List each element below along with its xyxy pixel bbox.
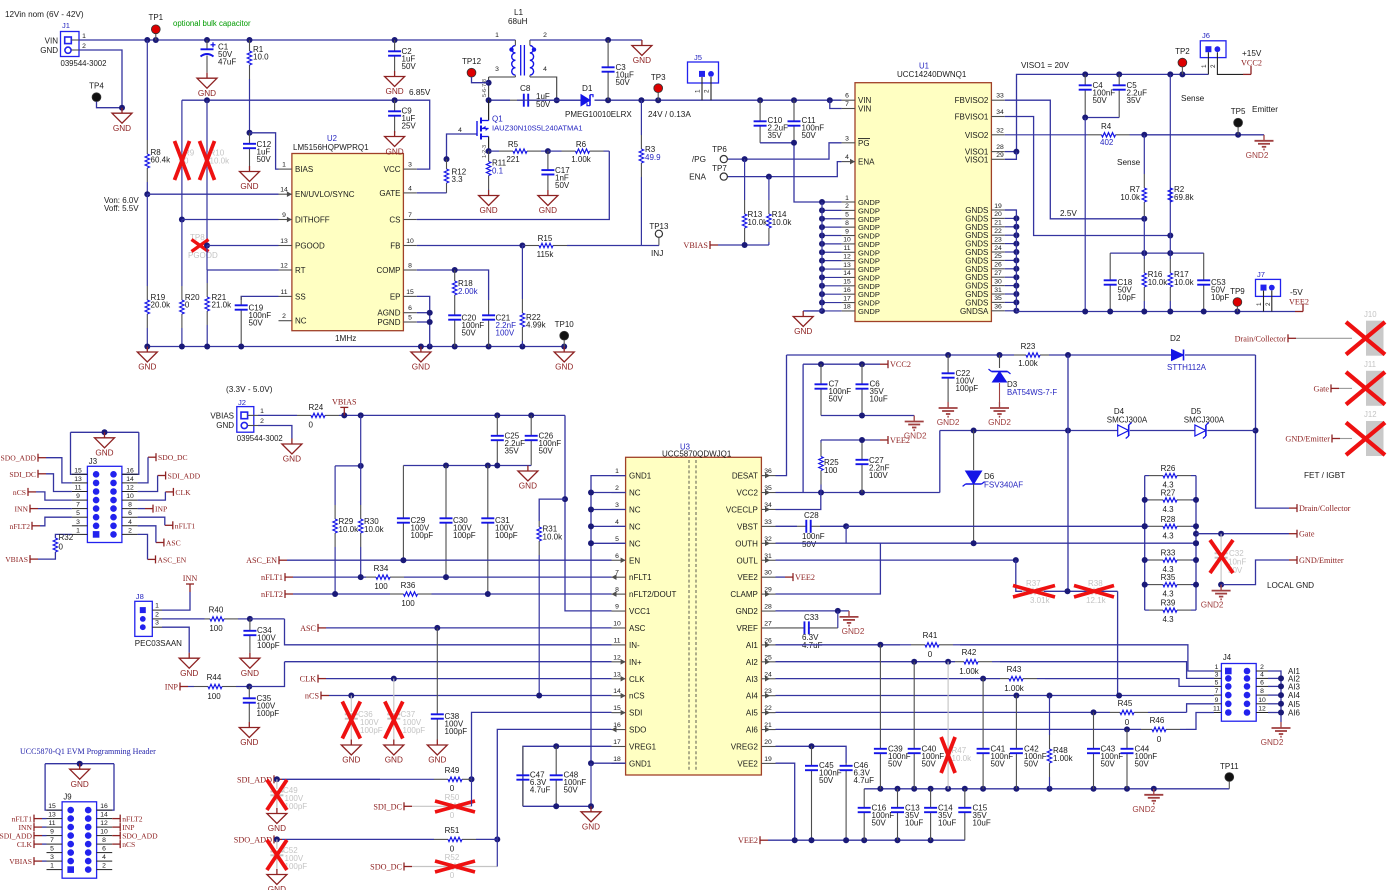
svg-text:GND: GND xyxy=(385,87,403,96)
svg-text:3.3: 3.3 xyxy=(452,175,464,184)
capacitor C3 xyxy=(607,40,609,67)
port nCS J9 xyxy=(112,843,120,845)
U2 pin 15 EP xyxy=(403,295,416,297)
U1 pin 6 VIN xyxy=(842,99,855,101)
wire U3 NC pin tie xyxy=(591,542,626,544)
svg-text:5-6-7-8: 5-6-7-8 xyxy=(482,79,488,97)
svg-text:R6: R6 xyxy=(576,140,587,149)
svg-text:Q1: Q1 xyxy=(492,115,503,124)
wire VREG2 line xyxy=(776,746,847,763)
svg-text:50V: 50V xyxy=(888,760,903,769)
svg-text:4.7uF: 4.7uF xyxy=(530,786,551,795)
svg-text:IN+: IN+ xyxy=(629,658,642,667)
port Gate J11 xyxy=(1331,387,1339,389)
svg-text:VBIAS: VBIAS xyxy=(9,857,32,866)
svg-text:GND: GND xyxy=(519,482,537,491)
ground GND at U3 xyxy=(590,806,592,812)
wire 6.85V rail xyxy=(182,100,430,169)
U2 pin 10 FB xyxy=(403,245,416,247)
capacitor C16 xyxy=(863,789,865,808)
wire OUTH line xyxy=(776,542,1197,544)
port SDO_ADD J3 xyxy=(38,457,46,459)
svg-text:NC: NC xyxy=(629,539,641,548)
svg-text:FBVISO1: FBVISO1 xyxy=(955,113,989,122)
svg-text:INJ: INJ xyxy=(651,249,663,258)
svg-text:SS: SS xyxy=(295,292,306,301)
svg-text:VIN: VIN xyxy=(45,36,59,45)
port SDI_DC xyxy=(404,805,412,807)
capacitor C18 xyxy=(1109,253,1111,280)
U1 pin 33 FBVISO2 xyxy=(991,99,1004,101)
svg-text:nFLT1: nFLT1 xyxy=(175,521,196,530)
svg-text:GND: GND xyxy=(40,46,58,55)
U3 pin 3 NC xyxy=(612,508,626,510)
U3 pin 31 OUTL xyxy=(761,559,775,561)
svg-text:7: 7 xyxy=(50,837,54,844)
svg-text:49.9: 49.9 xyxy=(645,153,661,162)
wire C18 loop rail xyxy=(1110,252,1204,254)
U3 pin 12 IN+ xyxy=(612,661,626,663)
resistor R23 xyxy=(1014,354,1026,356)
svg-text:NC: NC xyxy=(629,522,641,531)
svg-text:EP: EP xyxy=(390,292,401,301)
U3 pin 7 nFLT1 xyxy=(612,576,626,578)
wire CLK line xyxy=(326,678,612,680)
svg-text:nCS: nCS xyxy=(122,840,135,849)
svg-text:0: 0 xyxy=(450,871,455,880)
svg-text:50V: 50V xyxy=(564,786,579,795)
svg-text:BAT54WS-7-F: BAT54WS-7-F xyxy=(1007,388,1057,397)
testpoint TP1 xyxy=(155,29,157,40)
resistor R28 xyxy=(1145,525,1149,527)
port CLK J9 xyxy=(34,843,42,845)
svg-text:20: 20 xyxy=(994,211,1002,218)
svg-text:Sense: Sense xyxy=(1181,94,1205,103)
svg-text:R44: R44 xyxy=(207,673,222,682)
svg-text:GND2: GND2 xyxy=(937,418,960,427)
ground GND at TP10 xyxy=(563,347,565,353)
ground GND2 at pin28 xyxy=(848,611,850,617)
svg-text:INN: INN xyxy=(15,505,29,514)
svg-text:VISO2: VISO2 xyxy=(965,131,989,140)
ground GND at J2 xyxy=(291,439,293,445)
wire VCC1 riser xyxy=(565,415,612,611)
svg-text:68uH: 68uH xyxy=(508,17,528,26)
svg-text:10pF: 10pF xyxy=(1118,293,1136,302)
testpoint TP7 xyxy=(720,173,727,180)
svg-text:13: 13 xyxy=(613,671,621,678)
U3 pin 19 VEE2 xyxy=(761,762,775,764)
wire TP12 xyxy=(472,77,489,83)
J4 pins row 6 xyxy=(1214,712,1221,714)
svg-text:GND2: GND2 xyxy=(1246,151,1269,160)
svg-text:1.00k: 1.00k xyxy=(1053,754,1074,763)
svg-text:GND: GND xyxy=(385,148,403,157)
svg-text:VEE2: VEE2 xyxy=(738,836,758,845)
svg-text:TP9: TP9 xyxy=(1230,287,1245,296)
svg-text:10uF: 10uF xyxy=(905,819,923,828)
svg-text:nFLT1: nFLT1 xyxy=(261,573,283,582)
U3 pin 6 EN xyxy=(612,559,626,561)
resistor R21 xyxy=(206,270,208,283)
svg-text:R42: R42 xyxy=(962,648,977,657)
svg-text:UCC5870QDWJQ1: UCC5870QDWJQ1 xyxy=(662,450,732,459)
svg-text:VEE2: VEE2 xyxy=(1289,298,1309,307)
J3 pins row 7 xyxy=(72,525,88,527)
port SDI_DC J3 xyxy=(38,473,46,475)
U3 pin 5 NC xyxy=(612,542,626,544)
U3 pin 22 AI5 xyxy=(761,712,775,714)
svg-text:3: 3 xyxy=(408,162,412,169)
resistor R24 xyxy=(258,414,297,416)
svg-text:30: 30 xyxy=(994,278,1002,285)
resistor R27 xyxy=(1145,499,1149,501)
U3 pin 26 AI1 xyxy=(761,644,775,646)
svg-text:VEE2: VEE2 xyxy=(737,573,758,582)
port GND/Emitter xyxy=(1289,559,1297,561)
U2 pin 4 GATE xyxy=(403,192,416,194)
resistor R47 DNP xyxy=(947,662,949,789)
svg-text:29: 29 xyxy=(996,152,1004,159)
resistor R20 xyxy=(181,220,183,287)
svg-text:16: 16 xyxy=(100,803,108,810)
ground GND at C36 xyxy=(350,740,352,746)
svg-text:CLK: CLK xyxy=(17,840,33,849)
U3 pin 2 NC xyxy=(612,492,626,494)
svg-text:INP: INP xyxy=(155,505,167,514)
svg-text:10: 10 xyxy=(843,237,851,244)
U3 pin 35 VCC2 xyxy=(761,492,775,494)
svg-text:SDO: SDO xyxy=(629,726,646,735)
svg-text:GND: GND xyxy=(794,327,812,336)
svg-text:10: 10 xyxy=(126,493,134,500)
svg-text:GND2: GND2 xyxy=(1201,601,1224,610)
svg-text:GND2: GND2 xyxy=(988,418,1011,427)
svg-text:Emitter: Emitter xyxy=(1252,105,1278,114)
svg-text:C28: C28 xyxy=(804,511,819,520)
testpoint TP6 xyxy=(720,156,727,163)
svg-text:GND/Emitter: GND/Emitter xyxy=(1299,556,1344,565)
svg-text:CLK: CLK xyxy=(300,675,316,684)
wire DITHOFF line xyxy=(179,217,185,223)
svg-text:CLK: CLK xyxy=(175,488,191,497)
wire GND rail xyxy=(147,346,564,348)
svg-text:039544-3002: 039544-3002 xyxy=(61,59,107,68)
svg-text:VBIAS: VBIAS xyxy=(683,241,708,250)
resistor R6 xyxy=(545,148,551,154)
svg-text:R4: R4 xyxy=(1101,122,1112,131)
svg-text:VIN: VIN xyxy=(858,105,872,114)
svg-text:19: 19 xyxy=(764,756,772,763)
svg-text:3: 3 xyxy=(76,519,80,526)
port nFLT1 J9 xyxy=(34,818,42,820)
svg-text:GND: GND xyxy=(95,449,113,458)
capacitor C47 xyxy=(522,746,524,775)
wire DESAT feed xyxy=(776,355,787,476)
svg-text:16: 16 xyxy=(126,467,134,474)
svg-text:TP13: TP13 xyxy=(649,222,669,231)
wire R46 to J4 pin11 xyxy=(1186,713,1214,730)
U1 GNDP pins xyxy=(842,201,855,203)
svg-text:FB: FB xyxy=(390,242,400,251)
resistor R49 xyxy=(380,778,434,780)
svg-text:4.3: 4.3 xyxy=(1162,590,1174,599)
svg-text:J10: J10 xyxy=(1364,310,1377,319)
resistor R13 xyxy=(744,159,746,200)
svg-text:nFLT2/DOUT: nFLT2/DOUT xyxy=(629,590,677,599)
svg-text:35V: 35V xyxy=(505,447,520,456)
port SDI_ADD J9 xyxy=(34,835,42,837)
U1 GNDS pins xyxy=(991,209,1004,211)
capacitor C35 xyxy=(248,687,250,699)
svg-text:15: 15 xyxy=(843,279,851,286)
svg-text:GND: GND xyxy=(342,756,360,765)
J9 pins row 8 xyxy=(47,869,63,871)
capacitor C34 xyxy=(249,619,251,631)
svg-text:50V: 50V xyxy=(462,329,477,338)
svg-text:SMCJ300A: SMCJ300A xyxy=(1184,416,1225,425)
svg-text:10: 10 xyxy=(406,238,414,245)
J3 pins row 6 xyxy=(72,516,88,518)
svg-text:100pF: 100pF xyxy=(285,802,308,811)
testpoint TP3 xyxy=(657,88,659,93)
testpoint TP12 xyxy=(471,73,473,78)
port SDO_ADD J9 xyxy=(112,835,120,837)
wire J8 pin3 to GND xyxy=(162,627,189,653)
U1 pin 7 VIN xyxy=(842,108,855,110)
wire VIN pin7 branch xyxy=(830,100,842,108)
svg-text:60.4k: 60.4k xyxy=(151,156,172,165)
svg-text:RT: RT xyxy=(295,266,306,275)
port VBIAS J9 xyxy=(34,860,42,862)
testpoint TP11 xyxy=(1228,777,1230,782)
capacitor C25 xyxy=(496,415,498,435)
capacitor C49 DNP xyxy=(276,779,278,789)
resistor R36 xyxy=(390,593,404,595)
svg-text:UCC14240DWNQ1: UCC14240DWNQ1 xyxy=(897,70,967,79)
wire D4 D5 line xyxy=(940,430,1118,432)
diode D1 PMEG10010ELRX xyxy=(517,99,581,101)
capacitor C31 xyxy=(487,466,489,519)
svg-text:20: 20 xyxy=(764,739,772,746)
wire SDI riser xyxy=(472,712,612,779)
svg-text:1.00k: 1.00k xyxy=(1018,359,1039,368)
svg-text:4.3: 4.3 xyxy=(1162,615,1174,624)
diode D3 BAT54WS-7-F xyxy=(999,355,1001,368)
port VCC2 at C6 xyxy=(880,363,888,365)
J4 pins row 5 xyxy=(1214,703,1221,705)
svg-text:3: 3 xyxy=(50,854,54,861)
U2 pin 3 VCC xyxy=(403,168,416,170)
U3 pin 28 GND2 xyxy=(761,610,775,612)
svg-text:6: 6 xyxy=(128,510,132,517)
svg-text:1: 1 xyxy=(695,89,702,93)
svg-text:5: 5 xyxy=(845,212,849,219)
svg-text:INP: INP xyxy=(165,683,179,692)
svg-text:9: 9 xyxy=(1215,697,1219,704)
port Gate xyxy=(1289,533,1297,535)
ground GND2 at C7 C6 xyxy=(913,416,915,422)
svg-text:VCC1: VCC1 xyxy=(629,607,651,616)
ground GND at J3 xyxy=(104,432,106,438)
svg-text:GND: GND xyxy=(216,421,234,430)
wire VEE2 rail bottom xyxy=(768,839,965,841)
port nCS xyxy=(321,695,329,697)
svg-text:12: 12 xyxy=(280,263,288,270)
wire pin14 to SDO_DC xyxy=(138,457,148,483)
svg-text:22: 22 xyxy=(994,228,1002,235)
svg-text:50V: 50V xyxy=(991,760,1006,769)
svg-text:2: 2 xyxy=(155,611,159,618)
resistor R50 DNP xyxy=(412,805,448,807)
svg-text:SDO_DC: SDO_DC xyxy=(158,453,188,462)
wire C10 C11 gnd tie xyxy=(760,143,822,202)
ground GND at C12 xyxy=(249,166,251,172)
wire U3 NC pin tie xyxy=(591,492,626,494)
svg-text:R49: R49 xyxy=(445,766,460,775)
resistor R7 xyxy=(1143,135,1145,174)
svg-text:11: 11 xyxy=(613,637,620,644)
resistor R17 xyxy=(1169,253,1171,259)
svg-text:VEE2: VEE2 xyxy=(737,759,758,768)
U3 pin 18 GND1 xyxy=(612,762,626,764)
capacitor C2 xyxy=(394,40,396,51)
svg-text:2: 2 xyxy=(704,89,711,93)
resistor R46 xyxy=(1141,728,1152,730)
svg-text:R34: R34 xyxy=(374,564,389,573)
svg-text:R26: R26 xyxy=(1161,464,1176,473)
svg-text:Voff: 5.5V: Voff: 5.5V xyxy=(104,204,139,213)
svg-text:GNDSA: GNDSA xyxy=(960,307,989,316)
port SDI_ADD xyxy=(274,778,282,780)
svg-text:J3: J3 xyxy=(89,457,97,466)
svg-text:100V: 100V xyxy=(496,329,515,338)
capacitor C39 xyxy=(879,645,881,749)
svg-text:33: 33 xyxy=(996,93,1004,100)
wire VBIAS line xyxy=(718,244,769,246)
svg-text:1: 1 xyxy=(260,408,264,415)
svg-text:35: 35 xyxy=(994,295,1002,302)
capacitor C30 xyxy=(445,466,447,519)
svg-text:FBVISO2: FBVISO2 xyxy=(955,96,989,105)
wire VCC2 R23 D2 line xyxy=(787,354,1015,356)
svg-text:1: 1 xyxy=(155,603,159,610)
svg-text:2: 2 xyxy=(260,418,264,425)
capacitor C37 DNP xyxy=(393,679,395,712)
svg-text:SMCJ300A: SMCJ300A xyxy=(1107,416,1148,425)
svg-text:GND: GND xyxy=(71,780,89,789)
svg-text:R39: R39 xyxy=(1161,599,1176,608)
svg-text:J6: J6 xyxy=(1202,31,1210,40)
capacitor C45 xyxy=(811,746,813,766)
resistor R4 xyxy=(1005,134,1088,136)
svg-text:J5: J5 xyxy=(694,53,702,62)
svg-text:9: 9 xyxy=(282,212,286,219)
capacitor C22 xyxy=(947,355,949,373)
svg-text:TP10: TP10 xyxy=(555,320,575,329)
svg-text:VREF: VREF xyxy=(737,624,758,633)
svg-text:C8: C8 xyxy=(520,84,531,93)
svg-text:GND: GND xyxy=(633,56,651,65)
capacitor C38 xyxy=(436,628,438,714)
wire GNDS bus xyxy=(1005,210,1017,311)
svg-text:0: 0 xyxy=(1125,718,1130,727)
svg-text:2.00k: 2.00k xyxy=(458,287,479,296)
svg-text:10.0k: 10.0k xyxy=(1174,278,1195,287)
ground GND left rail xyxy=(146,347,148,353)
port ASC_EN xyxy=(279,559,287,561)
U3 pin 27 VREF xyxy=(761,627,775,629)
capacitor C21 xyxy=(488,300,490,315)
svg-text:Drain/Collector: Drain/Collector xyxy=(1235,334,1287,343)
svg-text:SDO_DC: SDO_DC xyxy=(370,863,402,872)
svg-text:15: 15 xyxy=(48,803,56,810)
testpoint TP9 xyxy=(1236,302,1238,307)
svg-text:9: 9 xyxy=(76,493,80,500)
resistor R37 DNP xyxy=(1022,590,1026,592)
svg-text:1: 1 xyxy=(82,33,86,40)
svg-text:14: 14 xyxy=(100,812,108,819)
ground GND at L1 secondary xyxy=(641,40,643,46)
svg-text:R37: R37 xyxy=(1026,579,1041,588)
svg-text:1: 1 xyxy=(1201,64,1208,68)
svg-text:10.0k: 10.0k xyxy=(748,218,769,227)
svg-text:NC: NC xyxy=(629,505,641,514)
svg-text:1: 1 xyxy=(615,468,619,475)
svg-text:R46: R46 xyxy=(1150,716,1165,725)
capacitor C10 xyxy=(759,100,761,121)
wire VCC2 pin35 line xyxy=(776,492,940,494)
resistor R25 xyxy=(820,440,822,443)
transistor Q1 MOSFET xyxy=(488,100,490,120)
svg-text:25: 25 xyxy=(994,253,1002,260)
svg-text:OUTL: OUTL xyxy=(737,556,759,565)
svg-text:nCS: nCS xyxy=(305,692,320,701)
svg-text:1: 1 xyxy=(495,32,499,39)
resistor R38 DNP xyxy=(1087,589,1101,594)
wire C32 bottom to GND/Emitter port xyxy=(1221,560,1289,585)
svg-text:EN/UVLO/SYNC: EN/UVLO/SYNC xyxy=(295,190,355,199)
port SDO_DC xyxy=(404,866,412,868)
wire D2 to TVS xyxy=(1256,355,1290,508)
svg-text:ASC: ASC xyxy=(300,624,316,633)
wire VREG gnd rail xyxy=(523,805,591,807)
U3 pin 23 AI4 xyxy=(761,695,775,697)
wire pin6 to nFLT1 xyxy=(138,517,165,525)
wire nFLT2 line xyxy=(293,593,390,595)
svg-text:CLAMP: CLAMP xyxy=(730,590,758,599)
capacitor C44 xyxy=(1126,729,1128,748)
svg-text:12: 12 xyxy=(126,485,134,492)
svg-text:100pF: 100pF xyxy=(403,726,426,735)
wire VEE2 pin19 xyxy=(776,763,795,840)
svg-text:GNDP: GNDP xyxy=(858,307,880,316)
resistor R35 xyxy=(1145,584,1149,586)
J4 pins row 3 xyxy=(1214,685,1221,687)
wire R45 to J4 pin9 xyxy=(1155,711,1187,713)
U3 pin 10 ASC xyxy=(612,627,626,629)
svg-text:15: 15 xyxy=(74,467,82,474)
svg-text:8: 8 xyxy=(1260,688,1264,695)
svg-text:11: 11 xyxy=(843,245,850,252)
ground GND2 at rail xyxy=(1153,789,1155,795)
resistor R12 xyxy=(446,159,448,169)
wire AI2 line xyxy=(776,661,956,663)
header J3 xyxy=(71,431,139,433)
svg-text:0: 0 xyxy=(309,421,314,430)
svg-text:R35: R35 xyxy=(1161,573,1176,582)
svg-text:GND: GND xyxy=(539,206,557,215)
